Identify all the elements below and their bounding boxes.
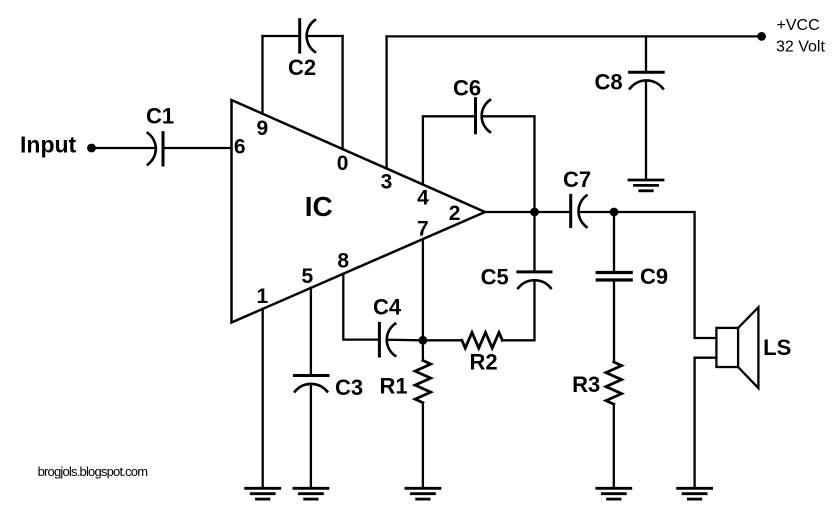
wire node A to C7 bbox=[535, 211, 571, 213]
wire R2 to junction node C bbox=[423, 339, 462, 341]
ground R1 bbox=[406, 488, 440, 499]
svg-text:C8: C8 bbox=[594, 70, 622, 95]
svg-text:4: 4 bbox=[417, 187, 429, 210]
wire C6 over and down to output node A bbox=[483, 116, 535, 212]
capacitor C8 bbox=[630, 72, 664, 88]
node +VCC terminal dot bbox=[757, 32, 766, 41]
resistor R2 bbox=[462, 333, 503, 349]
svg-text:1: 1 bbox=[257, 285, 269, 308]
wire R1 down to ground bbox=[422, 403, 424, 489]
svg-text:C9: C9 bbox=[640, 264, 668, 289]
wire pin 4 up and over to C6 bbox=[423, 116, 476, 184]
capacitor C3 bbox=[294, 376, 328, 392]
wire C4 to node C bbox=[388, 339, 423, 342]
wire op-amp output apex to node A bbox=[485, 211, 535, 213]
svg-text:C3: C3 bbox=[335, 375, 363, 400]
op-amp IC bbox=[232, 100, 486, 323]
svg-text:+VCC: +VCC bbox=[777, 17, 820, 34]
wire C7 to node B bbox=[579, 211, 614, 213]
speaker LS bbox=[716, 307, 758, 388]
wire node A down to C5 bbox=[533, 212, 535, 272]
capacitor C4 bbox=[379, 323, 395, 356]
svg-text:R3: R3 bbox=[572, 372, 600, 397]
svg-text:R1: R1 bbox=[380, 374, 408, 399]
svg-text:5: 5 bbox=[301, 265, 313, 288]
wire C9 down to R3 bbox=[613, 280, 615, 362]
svg-text:9: 9 bbox=[256, 117, 268, 140]
capacitor C1 bbox=[148, 133, 163, 165]
svg-text:C6: C6 bbox=[453, 76, 481, 101]
svg-text:R2: R2 bbox=[469, 350, 497, 375]
svg-text:C7: C7 bbox=[563, 167, 591, 192]
svg-text:8: 8 bbox=[337, 250, 349, 273]
node C junction dot bbox=[419, 336, 428, 345]
resistor R1 bbox=[415, 361, 431, 403]
wire C2 top right segment bbox=[308, 35, 343, 37]
wire node B down to C9 bbox=[613, 212, 615, 273]
wire C5 down and left to R2 bbox=[502, 280, 534, 340]
wire node B right and down to speaker bbox=[614, 212, 716, 338]
capacitor C5 bbox=[518, 272, 551, 288]
wire pin 7 down through node C to R1 bbox=[422, 240, 424, 360]
svg-text:LS: LS bbox=[763, 335, 791, 360]
node B junction dot bbox=[610, 208, 619, 217]
svg-text:IC: IC bbox=[305, 191, 333, 222]
wire R3 down to ground bbox=[613, 404, 615, 488]
svg-text:2: 2 bbox=[449, 202, 461, 225]
svg-text:C4: C4 bbox=[373, 295, 402, 320]
wire pin 9 up to C2 bbox=[261, 36, 263, 114]
wire pin 5 down to C3 bbox=[310, 288, 312, 376]
svg-text:C2: C2 bbox=[288, 55, 316, 80]
svg-text:3: 3 bbox=[381, 171, 393, 194]
ground C8 bbox=[629, 180, 663, 191]
wire C3 down to ground bbox=[310, 384, 312, 489]
ground LS bbox=[678, 488, 712, 499]
svg-text:brogjols.blogspot.com: brogjols.blogspot.com bbox=[38, 464, 148, 479]
node input terminal dot bbox=[87, 144, 96, 153]
wire C8 down to ground bbox=[645, 81, 647, 180]
capacitor C9 bbox=[597, 273, 631, 281]
wire pin 3 up to VCC rail bbox=[385, 36, 387, 168]
wire pin 8 down and over to C4 bbox=[343, 274, 379, 340]
wire pin 1 down to ground bbox=[262, 309, 264, 488]
ground C3 bbox=[294, 488, 328, 499]
capacitor C7 bbox=[571, 195, 587, 227]
svg-text:0: 0 bbox=[337, 152, 349, 175]
svg-text:C1: C1 bbox=[146, 104, 174, 129]
node A output junction dot bbox=[530, 208, 539, 217]
svg-text:C5: C5 bbox=[481, 265, 509, 290]
capacitor C2 bbox=[300, 20, 315, 52]
wire input dot to C1 bbox=[95, 147, 156, 149]
capacitor C6 bbox=[476, 99, 491, 133]
resistor R3 bbox=[606, 362, 622, 404]
wire C2 down to pin 0 bbox=[341, 36, 343, 149]
svg-text:Input: Input bbox=[20, 132, 77, 158]
svg-text:6: 6 bbox=[234, 136, 246, 159]
wire C2 top left segment bbox=[263, 35, 300, 37]
svg-text:32 Volt: 32 Volt bbox=[776, 38, 825, 55]
ground pin 1 bbox=[246, 488, 280, 499]
svg-text:7: 7 bbox=[417, 218, 429, 241]
ground R3 bbox=[597, 488, 631, 499]
wire C1 to pin 6 bbox=[163, 147, 232, 149]
wire VCC rail down to C8 bbox=[645, 36, 647, 72]
wire speaker bottom terminal down to ground bbox=[695, 358, 717, 489]
wire VCC rail bbox=[387, 35, 762, 37]
